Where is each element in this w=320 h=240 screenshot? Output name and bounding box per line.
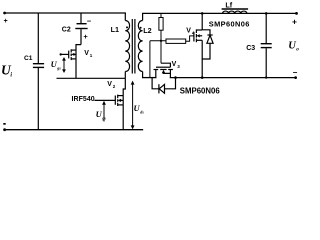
svg-text:ds: ds (140, 109, 144, 114)
wire top rail primary (5, 12, 126, 14)
drain stub (196, 29, 202, 31)
svg-text:L2: L2 (143, 26, 151, 35)
drain lead (201, 13, 203, 30)
source lead (75, 59, 77, 78)
capacitor C2 (75, 13, 87, 45)
svg-text:−: − (87, 16, 92, 25)
node junction dot gate net (160, 40, 162, 42)
transistor V3 forward SR (154, 63, 173, 77)
svg-text:V: V (84, 50, 89, 57)
svg-text:o: o (296, 47, 299, 53)
transformer core (132, 19, 135, 74)
svg-text:SMP60N06: SMP60N06 (180, 86, 221, 95)
node dot Lf C3 junction (265, 12, 268, 15)
node input plus terminal (3, 12, 6, 15)
svg-text:+: + (292, 16, 297, 26)
drain stub (155, 70, 157, 78)
svg-text:2: 2 (113, 84, 116, 89)
node dot V4 source on rail (201, 76, 204, 79)
bulk arrow V1 (73, 53, 76, 55)
svg-text:−: − (293, 68, 298, 77)
transformer secondary L2 winding (138, 13, 142, 77)
resistor R1 vertical (159, 13, 163, 63)
D-S line (75, 50, 77, 59)
wire bottom rail primary (5, 129, 143, 131)
wire riser to secondary bottom (149, 41, 151, 78)
drain lead jog (76, 45, 81, 51)
inductor Lf core bar (222, 8, 249, 10)
diode body V3 (152, 78, 175, 94)
svg-text:gs: gs (101, 115, 106, 120)
drain lead (123, 78, 125, 95)
svg-text:V: V (107, 81, 112, 88)
svg-text:+: + (83, 32, 88, 41)
svg-text:V: V (172, 61, 177, 68)
svg-text:C3: C3 (246, 45, 255, 52)
svg-text:Lf: Lf (225, 0, 232, 9)
svg-text:V: V (186, 27, 191, 34)
node dot C3 bottom on rail (265, 76, 267, 78)
bulk tie (164, 72, 171, 73)
channel segments (117, 95, 119, 99)
source lead (201, 40, 203, 77)
bulk arrow V4 (200, 35, 202, 37)
svg-text:gs: gs (56, 65, 61, 70)
wire bottom rail secondary left segment (143, 77, 156, 79)
svg-text:SMP60N06: SMP60N06 (209, 19, 250, 28)
svg-text:3: 3 (177, 64, 180, 69)
diode body V4 (202, 30, 213, 59)
node L1 phase dot (126, 26, 128, 28)
gate bar (193, 32, 195, 42)
node output minus terminal (294, 76, 297, 79)
node input minus terminal (3, 128, 6, 131)
transformer primary L1 winding (125, 13, 129, 78)
D-S line (122, 96, 124, 105)
wire bottom rail secondary right segment (170, 77, 295, 79)
wire top rail secondary (143, 12, 297, 14)
gate bar (68, 51, 70, 59)
svg-text:i: i (10, 73, 12, 79)
channel segments (154, 69, 159, 71)
channel segments (70, 49, 72, 52)
node L2 phase dot (140, 27, 142, 29)
bulk arrow V2 (121, 99, 124, 101)
svg-text:1: 1 (90, 53, 93, 58)
node output plus terminal (295, 12, 298, 15)
svg-text:C2: C2 (62, 27, 71, 34)
channel segments (195, 29, 197, 33)
svg-text:L1: L1 (111, 25, 119, 34)
voltage arrow Ugs (103, 103, 105, 122)
svg-text:C1: C1 (24, 55, 33, 62)
svg-text:IRF540: IRF540 (72, 96, 95, 103)
transistor V4 freewheeling SR (194, 13, 202, 77)
resistor R2 horizontal (166, 36, 194, 44)
source stub (118, 104, 124, 106)
source lead (122, 105, 124, 130)
transistor V2 main switch (94, 78, 125, 129)
node V1 gate dot (60, 53, 62, 55)
svg-text:+: + (4, 18, 8, 25)
gate lead elbow (161, 63, 170, 67)
node dot V4 drain on rail (201, 12, 204, 15)
capacitor C3 (261, 13, 272, 77)
wire gate drive horizontal (150, 40, 166, 42)
node dot diode right on rail (174, 76, 177, 79)
source stub (71, 58, 76, 60)
voltage arrow Uds (132, 83, 134, 127)
transistor V1 clamp mosfet (61, 45, 81, 79)
bulk arrow V3 (162, 70, 166, 74)
gate bar (114, 96, 116, 105)
source stub (196, 39, 202, 41)
wire clamp bottom (57, 77, 126, 79)
drain stub (71, 49, 76, 51)
capacitor C1 (33, 13, 44, 130)
drain stub (118, 95, 124, 97)
gate lead (61, 53, 69, 55)
gate bar (156, 66, 170, 68)
inductor Lf (223, 11, 247, 13)
gate wire (94, 99, 115, 101)
source stub (169, 70, 171, 78)
voltage arrow Ugs1 (63, 60, 65, 71)
